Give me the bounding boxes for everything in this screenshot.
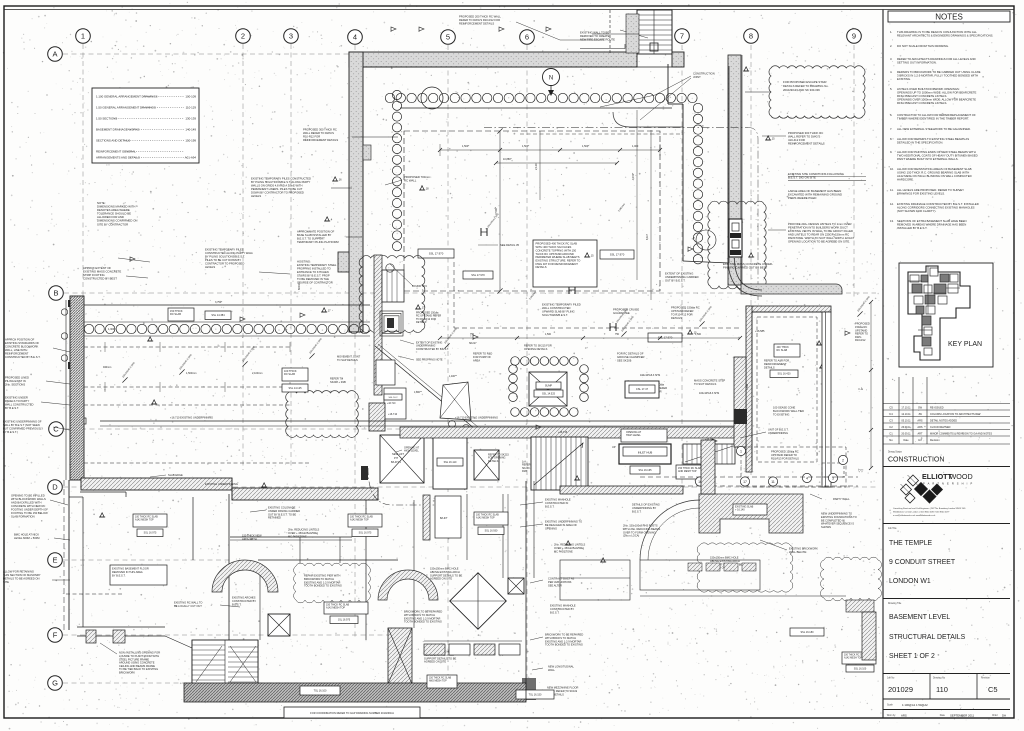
svg-text:SSL 17.970: SSL 17.970 xyxy=(610,253,625,257)
svg-text:8,117: 8,117 xyxy=(646,233,649,240)
svg-text:1,500*: 1,500* xyxy=(582,145,589,148)
svg-text:WALL CONSTRUCTED: WALL CONSTRUCTED xyxy=(5,403,34,407)
svg-text:PANELS TO PARTY: PANELS TO PARTY xyxy=(5,399,29,403)
svg-text:140-149: 140-149 xyxy=(185,128,196,132)
svg-text:201029/123 AND SK 330-336: 201029/123 AND SK 330-336 xyxy=(783,88,820,92)
svg-text:4,150*: 4,150* xyxy=(632,173,635,180)
svg-text:PILING EXIST IN: PILING EXIST IN xyxy=(5,379,26,383)
svg-text:CONCRETE BLOCKWORK: CONCRETE BLOCKWORK xyxy=(5,345,39,349)
svg-text:CONSTRUCTED BY BEST: CONSTRUCTED BY BEST xyxy=(83,277,117,281)
svg-text:SEE DETAIL 35: SEE DETAIL 35 xyxy=(500,243,519,247)
svg-text:2No. SECTIONS: 2No. SECTIONS xyxy=(5,383,25,387)
svg-text:PIERS WHERE PILED: PIERS WHERE PILED xyxy=(788,196,816,200)
svg-text:REINFORCEMENT DETAILS: REINFORCEMENT DETAILS xyxy=(788,142,825,146)
svg-text:2,120: 2,120 xyxy=(534,163,538,170)
svg-text:B.E.S.T. DIG ON SITE: B.E.S.T. DIG ON SITE xyxy=(788,175,816,179)
svg-text:130-139: 130-139 xyxy=(185,117,196,121)
svg-text:OPENING LOCATION TO BE AGREED: OPENING LOCATION TO BE AGREED ON SITE. xyxy=(788,240,850,244)
svg-text:EXISTING STANDARDS OF: EXISTING STANDARDS OF xyxy=(5,341,40,345)
svg-text:G: G xyxy=(52,679,58,688)
svg-text:JOINT: JOINT xyxy=(693,75,701,79)
svg-text:A01-A94: A01-A94 xyxy=(185,156,197,160)
svg-text:WALL, LINE WITH: WALL, LINE WITH xyxy=(5,348,27,352)
svg-text:10,880*: 10,880* xyxy=(503,158,512,161)
svg-text:3,500*: 3,500* xyxy=(494,206,498,215)
svg-text:D: D xyxy=(52,483,58,492)
svg-text:SSL 17.970: SSL 17.970 xyxy=(471,273,485,277)
svg-text:5: 5 xyxy=(446,33,450,42)
svg-text:1,500*: 1,500* xyxy=(462,145,469,148)
svg-text:110-129: 110-129 xyxy=(186,106,197,110)
svg-text:8: 8 xyxy=(749,32,753,41)
svg-text:A: A xyxy=(52,50,57,59)
svg-text:1: 1 xyxy=(81,32,85,41)
svg-text:150-199: 150-199 xyxy=(185,139,196,143)
svg-text:3: 3 xyxy=(289,32,293,41)
svg-text:N: N xyxy=(549,76,553,82)
svg-text:EXISTING UNDER: EXISTING UNDER xyxy=(5,396,28,400)
svg-text:E: E xyxy=(52,556,57,565)
svg-text:100-109: 100-109 xyxy=(185,95,196,99)
svg-text:SITE BY CONTRACTOR: SITE BY CONTRACTOR xyxy=(97,222,128,226)
svg-text:PROPOSED LINED: PROPOSED LINED xyxy=(5,376,29,380)
svg-text:1,500*: 1,500* xyxy=(522,145,529,148)
svg-text:CONSTRUCTED BY B.E.S.T.: CONSTRUCTED BY B.E.S.T. xyxy=(5,355,41,359)
svg-text:BY B.E.S.T.: BY B.E.S.T. xyxy=(5,406,19,410)
svg-text:SSL 17.970: SSL 17.970 xyxy=(429,252,444,256)
svg-text:APPROX POSITION OF: APPROX POSITION OF xyxy=(5,338,35,342)
svg-text:2: 2 xyxy=(241,32,245,41)
svg-text:6: 6 xyxy=(525,33,529,42)
svg-text:PINNING CARRIED OUT BY BEST: PINNING CARRIED OUT BY BEST xyxy=(723,265,767,269)
svg-text:CONSTRUCTION: CONSTRUCTION xyxy=(693,72,715,76)
svg-text:7: 7 xyxy=(680,32,684,41)
svg-text:4: 4 xyxy=(353,33,357,42)
svg-text:C: C xyxy=(53,425,59,434)
svg-text:ARRANGEMENTS AND DETAILS: ARRANGEMENTS AND DETAILS xyxy=(96,156,140,160)
svg-text:DETAILS: DETAILS xyxy=(536,265,547,269)
svg-text:1,000: 1,000 xyxy=(632,145,639,148)
svg-text:REINFORCEMENT: REINFORCEMENT xyxy=(5,352,29,356)
svg-text:9: 9 xyxy=(852,32,856,41)
svg-text:SECTIONS AND DETAILS: SECTIONS AND DETAILS xyxy=(96,139,130,143)
svg-text:F: F xyxy=(53,631,58,640)
svg-text:B: B xyxy=(53,289,58,298)
